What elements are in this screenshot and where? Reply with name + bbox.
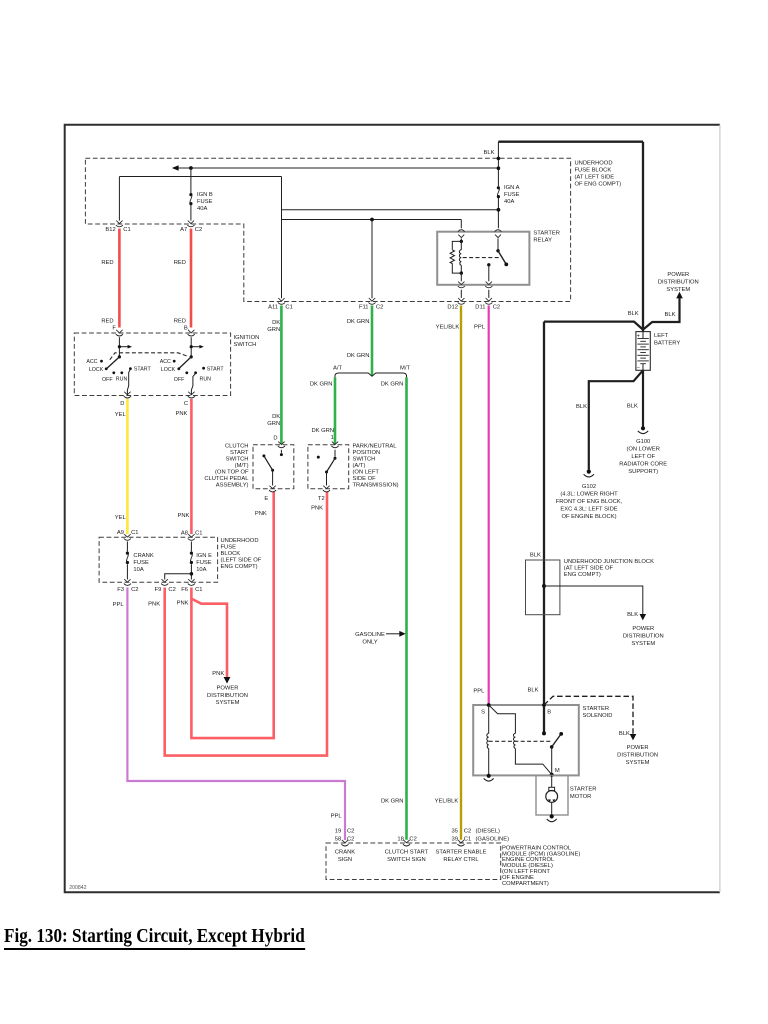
svg-text:GRN: GRN [267, 327, 280, 333]
svg-text:PPL: PPL [331, 814, 343, 820]
svg-text:MOTOR: MOTOR [570, 794, 591, 800]
svg-text:DK GRN: DK GRN [347, 319, 370, 325]
svg-text:COMPARTMENT): COMPARTMENT) [502, 881, 549, 887]
svg-text:E: E [264, 496, 268, 502]
node M at case [550, 773, 554, 777]
svg-text:FUSE: FUSE [133, 560, 149, 566]
svg-text:LEFT OF: LEFT OF [631, 454, 655, 460]
svg-text:19: 19 [335, 828, 341, 834]
connector park/neutral input [331, 442, 338, 448]
svg-text:POWER: POWER [667, 272, 689, 278]
svg-text:C2: C2 [195, 227, 202, 233]
svg-text:ACC: ACC [86, 359, 97, 365]
svg-text:RELAY: RELAY [533, 237, 552, 243]
svg-text:BLK: BLK [484, 150, 495, 156]
label power distribution system (pnk) [207, 685, 248, 706]
node dashed branch at B [542, 703, 546, 707]
svg-text:POWER: POWER [632, 626, 654, 632]
labels DK GRN at split [310, 381, 403, 387]
svg-text:SYSTEM: SYSTEM [631, 641, 655, 647]
svg-text:200842: 200842 [69, 885, 86, 891]
connector F3/C2 [117, 579, 138, 593]
svg-text:(4.3L: LOWER RIGHT: (4.3L: LOWER RIGHT [560, 491, 618, 497]
connector relay switch input [495, 230, 502, 238]
pin labels crank signal [335, 828, 355, 842]
park/neutral label [353, 444, 399, 489]
svg-text:39: 39 [452, 837, 458, 843]
svg-text:40A: 40A [197, 206, 207, 212]
svg-text:C: C [184, 401, 188, 407]
solenoid switch blade [550, 732, 563, 749]
svg-text:PPL: PPL [473, 688, 485, 694]
svg-text:CLUTCH START: CLUTCH START [385, 849, 429, 855]
svg-text:FUSE: FUSE [221, 545, 237, 551]
solenoid pull-in coil [489, 705, 552, 775]
clutch start switch label [204, 444, 249, 489]
connector A7/C2 [180, 221, 202, 234]
svg-text:PNK: PNK [212, 671, 224, 677]
svg-text:SWITCH SIGN: SWITCH SIGN [387, 857, 426, 863]
svg-text:BLK: BLK [530, 552, 541, 558]
labels DK GRN (F11 wire) [347, 319, 370, 359]
svg-text:C1: C1 [464, 837, 471, 843]
connector park/neutral output T2 [318, 486, 330, 502]
svg-text:A7: A7 [180, 227, 187, 233]
svg-text:1: 1 [331, 435, 334, 441]
ignition switch half 1 (start contact set) [86, 337, 151, 394]
svg-text:SYSTEM: SYSTEM [666, 287, 690, 293]
svg-text:DISTRIBUTION: DISTRIBUTION [658, 279, 699, 285]
svg-text:BLK: BLK [528, 688, 539, 694]
PCM label [502, 845, 580, 886]
node IGN A at bus [497, 166, 501, 170]
label G102 [556, 484, 623, 520]
label gasoline only with arrow [355, 631, 406, 646]
svg-text:C2: C2 [347, 828, 354, 834]
label power distribution system (junction block) [623, 626, 664, 647]
relay coil with parallel resistor [450, 239, 463, 282]
labels YEL PNK [115, 411, 190, 521]
svg-text:ACC: ACC [160, 359, 171, 365]
svg-text:SWITCH: SWITCH [226, 457, 249, 463]
svg-text:BLK: BLK [576, 404, 587, 410]
svg-text:A11: A11 [268, 305, 278, 311]
node junction block tap [542, 584, 546, 588]
svg-text:RUN: RUN [200, 377, 212, 383]
svg-text:M: M [555, 768, 560, 774]
labels PPL BLK above solenoid [473, 688, 538, 695]
starter relay label [533, 231, 560, 244]
wire DK GRN A11 to clutch start switch [280, 306, 283, 444]
svg-text:SIDE OF: SIDE OF [353, 476, 377, 482]
node S [487, 703, 491, 707]
svg-text:C2: C2 [131, 587, 138, 593]
svg-text:RED: RED [174, 319, 186, 325]
wire DK GRN F11 to A/T M/T split [371, 306, 374, 376]
svg-text:START: START [230, 450, 249, 456]
wire PNK F6 to power distribution [191, 588, 227, 678]
label G100 [619, 439, 667, 475]
svg-text:T2: T2 [318, 496, 325, 502]
svg-text:DK GRN: DK GRN [381, 799, 404, 805]
svg-text:DK: DK [272, 320, 280, 326]
svg-text:SIGN: SIGN [338, 857, 352, 863]
wire to B12 connector [119, 177, 281, 221]
svg-text:C1: C1 [123, 227, 130, 233]
svg-text:(DIESEL): (DIESEL) [476, 828, 501, 834]
wire DK GRN split to park/neutral switch [334, 377, 337, 443]
svg-text:LOCK: LOCK [161, 367, 176, 373]
svg-text:STARTER: STARTER [570, 787, 597, 793]
wire PNK F9 to park/neutral switch T2 [165, 492, 327, 756]
svg-text:PPL: PPL [113, 602, 125, 608]
svg-text:B12: B12 [105, 227, 115, 233]
svg-text:YEL: YEL [115, 412, 127, 418]
svg-text:YEL: YEL [115, 515, 127, 521]
svg-text:STARTER ENABLE: STARTER ENABLE [435, 849, 486, 855]
svg-text:SOLENOID: SOLENOID [583, 713, 613, 719]
connector F6/C1 [181, 579, 202, 593]
svg-text:PNK: PNK [177, 513, 189, 519]
svg-text:IGN B: IGN B [197, 192, 213, 198]
svg-text:YEL/BLK: YEL/BLK [436, 325, 460, 331]
relay mechanical linkage dashed [463, 257, 499, 259]
solenoid hold-in coil [487, 705, 489, 775]
svg-text:(GASOLINE): (GASOLINE) [476, 837, 510, 843]
wire PPL crank fuse to PCM crank signal [127, 588, 345, 841]
svg-text:GASOLINE: GASOLINE [355, 632, 385, 638]
svg-text:(AT LEFT SIDE OF: (AT LEFT SIDE OF [564, 566, 614, 572]
arrow up to power distribution [676, 292, 683, 299]
svg-text:C2: C2 [376, 305, 383, 311]
starter solenoid label [583, 706, 613, 719]
connector clutch input [278, 442, 285, 448]
svg-text:C1: C1 [195, 531, 202, 537]
svg-text:10A: 10A [133, 567, 143, 573]
park/neutral position switch dashed box [308, 445, 349, 489]
svg-text:LEFT: LEFT [654, 333, 669, 339]
svg-text:CRANK: CRANK [133, 553, 153, 559]
node F11 tap [370, 218, 374, 222]
svg-text:D12: D12 [447, 305, 458, 311]
labels YEL/BLK and PPL [436, 325, 486, 331]
underhood junction block label [564, 559, 654, 578]
svg-text:35: 35 [452, 828, 458, 834]
svg-text:SYSTEM: SYSTEM [626, 760, 650, 766]
svg-text:BLK: BLK [627, 612, 638, 618]
svg-text:DK: DK [272, 414, 280, 420]
svg-text:DISTRIBUTION: DISTRIBUTION [623, 634, 664, 640]
svg-text:BATTERY: BATTERY [654, 341, 680, 347]
svg-text:RED: RED [101, 319, 113, 325]
wire PPL D11 to starter solenoid S [488, 306, 490, 705]
wire BLK dashed to power distribution [544, 696, 633, 734]
ground G102 [584, 470, 594, 477]
svg-text:OF ENGINE BLOCK): OF ENGINE BLOCK) [561, 514, 616, 520]
svg-text:(AT LEFT SIDE: (AT LEFT SIDE [575, 175, 615, 181]
svg-text:F6: F6 [181, 587, 188, 593]
wire fuse output to A11 drop [282, 209, 499, 211]
svg-text:FRONT OF ENG BLOCK,: FRONT OF ENG BLOCK, [556, 499, 623, 505]
connector F11/C2 [359, 298, 383, 311]
svg-text:PNK: PNK [148, 602, 160, 608]
clutch start switch dashed box [253, 445, 294, 489]
svg-text:EXC 4.3L: LEFT SIDE: EXC 4.3L: LEFT SIDE [560, 506, 617, 512]
svg-text:PNK: PNK [311, 506, 323, 512]
park/neutral switch contacts [317, 450, 337, 486]
svg-text:CRANK: CRANK [335, 849, 355, 855]
arrow down power distribution (junction block) [640, 614, 647, 620]
underhood fuse block (crank) label [221, 538, 262, 570]
svg-text:POWER: POWER [627, 745, 649, 751]
connector relay switch output [485, 282, 492, 288]
svg-text:STARTER: STARTER [533, 231, 560, 237]
PCM input labels [335, 849, 487, 863]
svg-text:POSITION: POSITION [353, 450, 381, 456]
left battery [636, 332, 650, 372]
svg-text:BLK: BLK [627, 404, 638, 410]
node on bus at IGN B fuse [189, 166, 193, 170]
connector ignition output C [184, 392, 195, 407]
wire RED A7 to ignition switch [190, 229, 193, 328]
starter motor enclosure [536, 775, 568, 815]
labels BLK at battery bottom [576, 404, 638, 410]
wire to F11 connector [371, 220, 373, 299]
connector clutch output E [264, 486, 276, 502]
connector A11/C1 [268, 298, 293, 311]
wire DK GRN split to PCM clutch signal (gasoline only) [405, 377, 408, 839]
fuse IGN E 10A [190, 542, 212, 580]
connector A8/C1 [181, 531, 203, 541]
svg-text:IGN E: IGN E [196, 553, 212, 559]
connector relay coil input [458, 230, 465, 238]
svg-text:58: 58 [335, 837, 341, 843]
wire M terminal [551, 747, 553, 776]
fuse IGN A 40A [497, 142, 520, 229]
pin labels clutch signal [397, 837, 416, 843]
svg-text:S: S [481, 710, 485, 716]
svg-text:DK GRN: DK GRN [381, 381, 404, 387]
svg-text:GRN: GRN [267, 421, 280, 427]
label power distribution system (battery top right) [658, 272, 699, 293]
svg-text:TRANSMISSION): TRANSMISSION) [353, 483, 399, 489]
wire BLK battery negative to G102 [589, 370, 643, 470]
svg-text:18: 18 [397, 837, 403, 843]
svg-text:BLK: BLK [665, 312, 676, 318]
svg-text:PNK: PNK [177, 601, 189, 607]
wire PNK ignition C to IGN E fuse [190, 399, 193, 534]
left battery label [654, 333, 680, 347]
wire BLK junction block to power distribution [544, 586, 643, 614]
svg-text:C1: C1 [285, 305, 292, 311]
svg-text:SYSTEM: SYSTEM [216, 700, 240, 706]
underhood fuse block label [575, 161, 622, 188]
svg-text:C1: C1 [195, 587, 202, 593]
pin labels starter enable [452, 828, 510, 842]
svg-text:(A/T): (A/T) [353, 463, 366, 469]
svg-text:UNDERHOOD: UNDERHOOD [221, 538, 259, 544]
svg-text:C2: C2 [347, 837, 354, 843]
svg-text:B: B [184, 326, 188, 332]
svg-text:B: B [547, 710, 551, 716]
svg-text:C2: C2 [493, 305, 500, 311]
wire BLK battery negative to G100 [642, 370, 644, 426]
svg-text:F11: F11 [359, 305, 369, 311]
svg-text:FUSE: FUSE [196, 560, 212, 566]
svg-text:ASSEMBLY): ASSEMBLY) [216, 483, 249, 489]
wire BLK battery positive branch left [544, 322, 643, 330]
ground at starter motor [547, 814, 557, 821]
svg-text:OFF: OFF [102, 377, 113, 383]
wire RED B12 to ignition switch [118, 229, 121, 328]
svg-text:ONLY: ONLY [362, 640, 377, 646]
svg-text:PNK: PNK [255, 511, 267, 517]
labels BLK at battery top [628, 311, 676, 318]
wire BLK battery to power distribution [643, 298, 680, 330]
wire YEL/BLK D12 to PCM [460, 306, 462, 840]
svg-text:PNK: PNK [175, 411, 187, 417]
svg-text:POWER: POWER [217, 685, 239, 691]
ignition switch half 2 (run contact set) [160, 337, 225, 394]
svg-text:−: − [637, 366, 640, 372]
svg-text:F3: F3 [117, 587, 124, 593]
wire BLK fuse block down to battery [642, 142, 644, 332]
svg-text:BLK: BLK [619, 731, 630, 737]
vertical wire to A11 connector [281, 177, 283, 299]
wire PNK F6 to clutch start switch E [191, 492, 273, 738]
svg-text:UNDERHOOD: UNDERHOOD [575, 161, 613, 167]
svg-text:IGN A: IGN A [504, 185, 520, 191]
svg-text:(ON LEFT: (ON LEFT [353, 470, 380, 476]
node IGN A at dashed edge [497, 157, 501, 161]
svg-text:START: START [207, 367, 225, 373]
svg-text:(ON TOP OF: (ON TOP OF [215, 470, 249, 476]
wire branch to F9 [165, 574, 192, 580]
svg-text:OF ENG COMPT): OF ENG COMPT) [575, 182, 622, 188]
starter motor symbol [546, 775, 558, 814]
svg-text:RELAY CTRL: RELAY CTRL [443, 857, 479, 863]
fuse CRANK 10A [126, 542, 154, 580]
node B contact [542, 731, 546, 735]
relay switch blade [487, 239, 508, 282]
svg-text:(ON LOWER: (ON LOWER [626, 447, 660, 453]
wire relay coil feed [282, 220, 462, 229]
svg-text:10A: 10A [196, 567, 206, 573]
svg-text:A/T: A/T [333, 366, 342, 372]
svg-text:RED: RED [174, 260, 186, 266]
arrow down power distribution (solenoid) [630, 734, 637, 740]
svg-text:BLK: BLK [628, 311, 639, 317]
svg-text:CLUTCH PEDAL: CLUTCH PEDAL [204, 476, 249, 482]
svg-text:G100: G100 [636, 439, 650, 445]
ground G100 [638, 426, 648, 433]
svg-text:DK GRN: DK GRN [311, 428, 334, 434]
svg-text:(LEFT SIDE OF: (LEFT SIDE OF [221, 558, 262, 564]
svg-text:LOCK: LOCK [89, 367, 104, 373]
underhood fuse block (crank) dashed box [99, 537, 218, 582]
svg-text:FUSE BLOCK: FUSE BLOCK [575, 168, 612, 174]
svg-text:START: START [134, 367, 152, 373]
connector F9/C2 [155, 579, 176, 593]
svg-text:RUN: RUN [116, 377, 128, 383]
ground at solenoid [484, 774, 494, 781]
svg-text:C2: C2 [464, 828, 471, 834]
svg-text:A9: A9 [117, 530, 124, 536]
svg-text:OFF: OFF [174, 377, 185, 383]
svg-text:ENG COMPT): ENG COMPT) [221, 564, 258, 570]
svg-text:F: F [112, 326, 116, 332]
connector D11/C2 [475, 298, 500, 311]
fuse IGN B 40A [189, 168, 213, 221]
starter solenoid box [473, 705, 579, 775]
svg-text:SWITCH: SWITCH [353, 457, 376, 463]
svg-text:RADIATOR CORE: RADIATOR CORE [619, 462, 667, 468]
arrow power distribution (pnk) [224, 677, 231, 684]
connector ignition input F [116, 330, 123, 336]
svg-text:DISTRIBUTION: DISTRIBUTION [617, 752, 658, 758]
connector PCM crank signal [341, 840, 348, 846]
split bracket A/T M/T [333, 366, 410, 378]
svg-text:G102: G102 [582, 484, 596, 490]
svg-text:PPL: PPL [474, 325, 486, 331]
wire bus inside fuse block (to left arrow) [175, 167, 499, 169]
svg-text:D: D [273, 436, 277, 442]
svg-text:STARTER: STARTER [583, 706, 610, 712]
svg-text:BLOCK: BLOCK [221, 551, 241, 557]
wire YEL ignition D to crank fuse [126, 399, 129, 534]
svg-text:YEL/BLK: YEL/BLK [435, 799, 459, 805]
svg-text:RED: RED [101, 260, 113, 266]
connector A9/C1 [117, 530, 139, 540]
ignition switch label [234, 335, 260, 348]
connector ignition input B [188, 330, 195, 336]
connector B12/C1 [105, 221, 130, 234]
wire BLK battery to junction block and solenoid B [543, 322, 545, 734]
svg-text:DK GRN: DK GRN [347, 353, 370, 359]
svg-text:40A: 40A [504, 199, 514, 205]
starter relay box [437, 232, 529, 285]
svg-text:SUPPORT): SUPPORT) [628, 469, 658, 475]
underhood junction block box [526, 560, 560, 615]
label power distribution system (solenoid) [617, 745, 658, 766]
wire BLK from battery to fuse block (thick, top) [498, 141, 643, 143]
svg-text:FUSE: FUSE [504, 192, 520, 198]
labels PPL PNK PNK [113, 601, 189, 609]
connector PCM starter enable [457, 840, 464, 846]
solenoid linkage dashed [489, 740, 552, 742]
svg-text:SWITCH: SWITCH [234, 342, 257, 348]
node IGN A fuse output [497, 208, 501, 212]
svg-text:M/T: M/T [400, 366, 410, 372]
diagram frame [65, 125, 720, 893]
svg-text:C2: C2 [409, 837, 416, 843]
connector PCM clutch signal [403, 840, 410, 846]
clutch switch contacts [262, 450, 283, 486]
svg-text:C1: C1 [131, 530, 138, 536]
svg-text:F9: F9 [155, 587, 162, 593]
connector relay coil output [458, 282, 465, 288]
PCM dashed box [326, 843, 501, 880]
svg-text:(M/T): (M/T) [235, 463, 249, 469]
labels RED [101, 260, 186, 325]
arrow continuation left [172, 165, 179, 171]
svg-text:ENG COMPT): ENG COMPT) [564, 572, 601, 578]
underhood fuse block (top) dashed outline [85, 158, 570, 301]
svg-text:UNDERHOOD JUNCTION BLOCK: UNDERHOOD JUNCTION BLOCK [564, 559, 654, 565]
ignition switch dashed box [74, 333, 230, 396]
svg-text:CLUTCH: CLUTCH [225, 444, 249, 450]
connector D12 [447, 298, 465, 311]
